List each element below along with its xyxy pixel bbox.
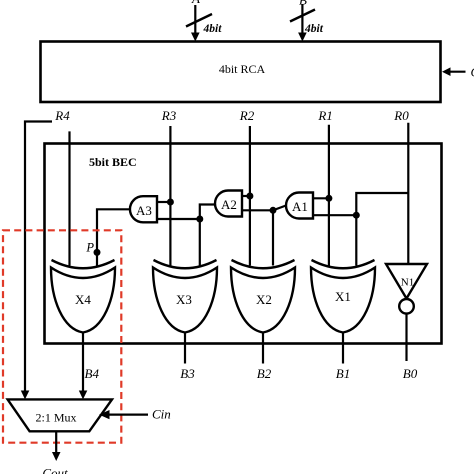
and-gate A1 — [286, 193, 313, 219]
svg-text:4bit: 4bit — [203, 23, 223, 35]
input A label — [191, 0, 200, 6]
junction on R3 — [167, 199, 174, 206]
node P — [85, 241, 100, 256]
wire input A — [191, 5, 200, 42]
svg-text:2:1 Mux: 2:1 Mux — [35, 411, 76, 425]
node R2 label — [239, 108, 255, 123]
wire B3 output stub — [184, 333, 186, 364]
node R0 label — [393, 108, 409, 123]
inverter N1 — [386, 264, 427, 314]
wire Cin into RCA (right side) — [442, 67, 466, 76]
wire A3 top input from R3 — [156, 201, 170, 203]
junction on R2 — [246, 193, 253, 200]
svg-text:Cout: Cout — [42, 466, 68, 474]
xor-gate X4 — [51, 260, 115, 333]
bus slash A — [186, 14, 212, 27]
wire B4 from X4 to mux — [79, 333, 88, 400]
wire A1 output to A2 and X2 — [242, 206, 286, 266]
wire R1 to X1 — [328, 125, 330, 266]
xor-gate X3 — [153, 260, 217, 333]
wire Cin into mux — [99, 410, 148, 419]
junction A1 output node — [270, 207, 277, 214]
xor-gate X1 — [311, 260, 375, 333]
svg-text:R3: R3 — [161, 108, 177, 123]
svg-text:5bit BEC: 5bit BEC — [89, 155, 137, 169]
junction on R1 — [325, 195, 332, 202]
svg-text:Cin: Cin — [152, 407, 171, 422]
svg-text:B0: B0 — [403, 366, 418, 381]
junction on R0 branch — [353, 212, 360, 219]
and-gate A3 — [130, 196, 157, 222]
node R4 label — [54, 108, 70, 123]
node R1 label — [317, 108, 332, 123]
Cout label (clipped at bottom) — [42, 466, 68, 474]
svg-text:B3: B3 — [180, 366, 195, 381]
node B0 label — [403, 366, 418, 381]
svg-text:R2: R2 — [239, 108, 255, 123]
wire A2 top input from R2 — [241, 195, 250, 197]
svg-text:A3: A3 — [136, 203, 152, 218]
svg-text:R0: R0 — [393, 108, 409, 123]
svg-text:4bit RCA: 4bit RCA — [219, 62, 266, 76]
svg-text:N1: N1 — [401, 277, 414, 289]
svg-text:B1: B1 — [336, 366, 350, 381]
svg-text:B4: B4 — [85, 366, 100, 381]
node R3 label — [161, 108, 177, 123]
node B3 label — [180, 366, 195, 381]
input B label — [299, 0, 307, 8]
xor-gate X2 — [231, 260, 295, 333]
4bit RCA block U1 — [41, 42, 441, 103]
wire R4 to X4 — [68, 131, 70, 265]
svg-text:P: P — [85, 241, 94, 255]
wire R4 branch to mux (left side) — [21, 122, 52, 400]
svg-text:R4: R4 — [54, 108, 70, 123]
svg-text:A1: A1 — [292, 199, 308, 214]
wire R0 to N1 — [407, 123, 409, 264]
node B1 label — [336, 366, 350, 381]
node B4 label — [85, 366, 100, 381]
junction A2 output node — [196, 216, 203, 223]
svg-text:A2: A2 — [221, 197, 237, 212]
svg-text:4bit: 4bit — [304, 23, 324, 35]
wire A1 bottom input — [312, 214, 356, 216]
bus width label 4bit (A) — [203, 23, 223, 35]
svg-text:X4: X4 — [75, 292, 91, 307]
Cin label — [152, 407, 171, 422]
svg-text:X2: X2 — [256, 292, 272, 307]
node B2 label — [257, 366, 272, 381]
svg-text:X3: X3 — [176, 292, 192, 307]
2:1 Mux — [8, 399, 112, 431]
wire A2 output to A3 and X3 — [157, 205, 214, 266]
wire R0 branch to A1 and X1 — [356, 193, 408, 266]
wire Cout from mux — [52, 431, 61, 461]
wire A3 output to node P and X4 — [97, 209, 131, 265]
wire R3 to X3 — [169, 126, 171, 266]
Cin label (clipped at edge) — [471, 65, 474, 80]
wire B0 output stub from N1 — [405, 314, 407, 361]
and-gate A2 — [215, 191, 242, 217]
wire B1 output stub — [342, 333, 344, 364]
svg-text:X1: X1 — [335, 289, 351, 304]
bus slash B — [290, 10, 315, 22]
svg-text:Cin: Cin — [471, 65, 474, 80]
5bit BEC block boundary — [45, 144, 442, 344]
svg-text:B2: B2 — [257, 366, 272, 381]
svg-text:R1: R1 — [317, 108, 332, 123]
bus width label 4bit (B) — [304, 23, 324, 35]
wire R2 to X2 — [249, 126, 251, 266]
wire A1 top input from R1 — [312, 197, 329, 199]
wire B2 output stub — [262, 333, 264, 364]
wire input B — [298, 4, 307, 42]
red dashed highlight box — [3, 230, 121, 442]
